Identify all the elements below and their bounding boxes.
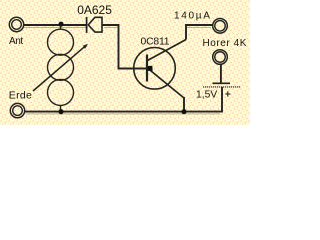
coil L1 (variable inductor, 3 turns) (48, 25, 74, 112)
wire diode to base corner (102, 25, 146, 69)
terminal Erde (10, 103, 24, 117)
diode D1 cathode bar (86, 17, 88, 33)
svg-text:Erde: Erde (9, 90, 32, 102)
arrow across coil (variable) (33, 45, 86, 91)
transistor Q1 base bar (146, 55, 148, 82)
terminal headphone bottom (213, 50, 228, 65)
battery BT1 positive plate (long) (203, 86, 241, 88)
transistor Q1 emitter (148, 69, 184, 99)
wire emitter to rail (183, 97, 185, 112)
svg-text:0A625: 0A625 (77, 3, 112, 17)
svg-text:140µA: 140µA (174, 11, 212, 22)
wire collector to output terminal (186, 25, 213, 40)
terminal headphone top (213, 19, 228, 34)
node junction top of coil (58, 22, 63, 27)
transistor Q1 collector (148, 40, 187, 61)
wire antenna to diode (24, 24, 87, 26)
wire battery to ground rail (25, 87, 222, 112)
svg-text:Horer 4K: Horer 4K (203, 38, 247, 49)
transistor Q1 emitter arrow (PNP) (148, 66, 153, 71)
node junction coil to rail (58, 109, 63, 114)
battery plus sign (225, 91, 230, 96)
diode D1 body (88, 17, 102, 32)
transistor Q1 body (134, 48, 176, 90)
battery BT1 negative plate (213, 82, 231, 84)
svg-text:1,5V: 1,5V (196, 90, 217, 101)
terminal Ant (9, 17, 23, 31)
svg-text:Ant: Ant (9, 36, 23, 47)
svg-text:0C811: 0C811 (141, 36, 170, 47)
node junction emitter to rail (181, 109, 186, 114)
wire terminal to battery (220, 64, 222, 83)
